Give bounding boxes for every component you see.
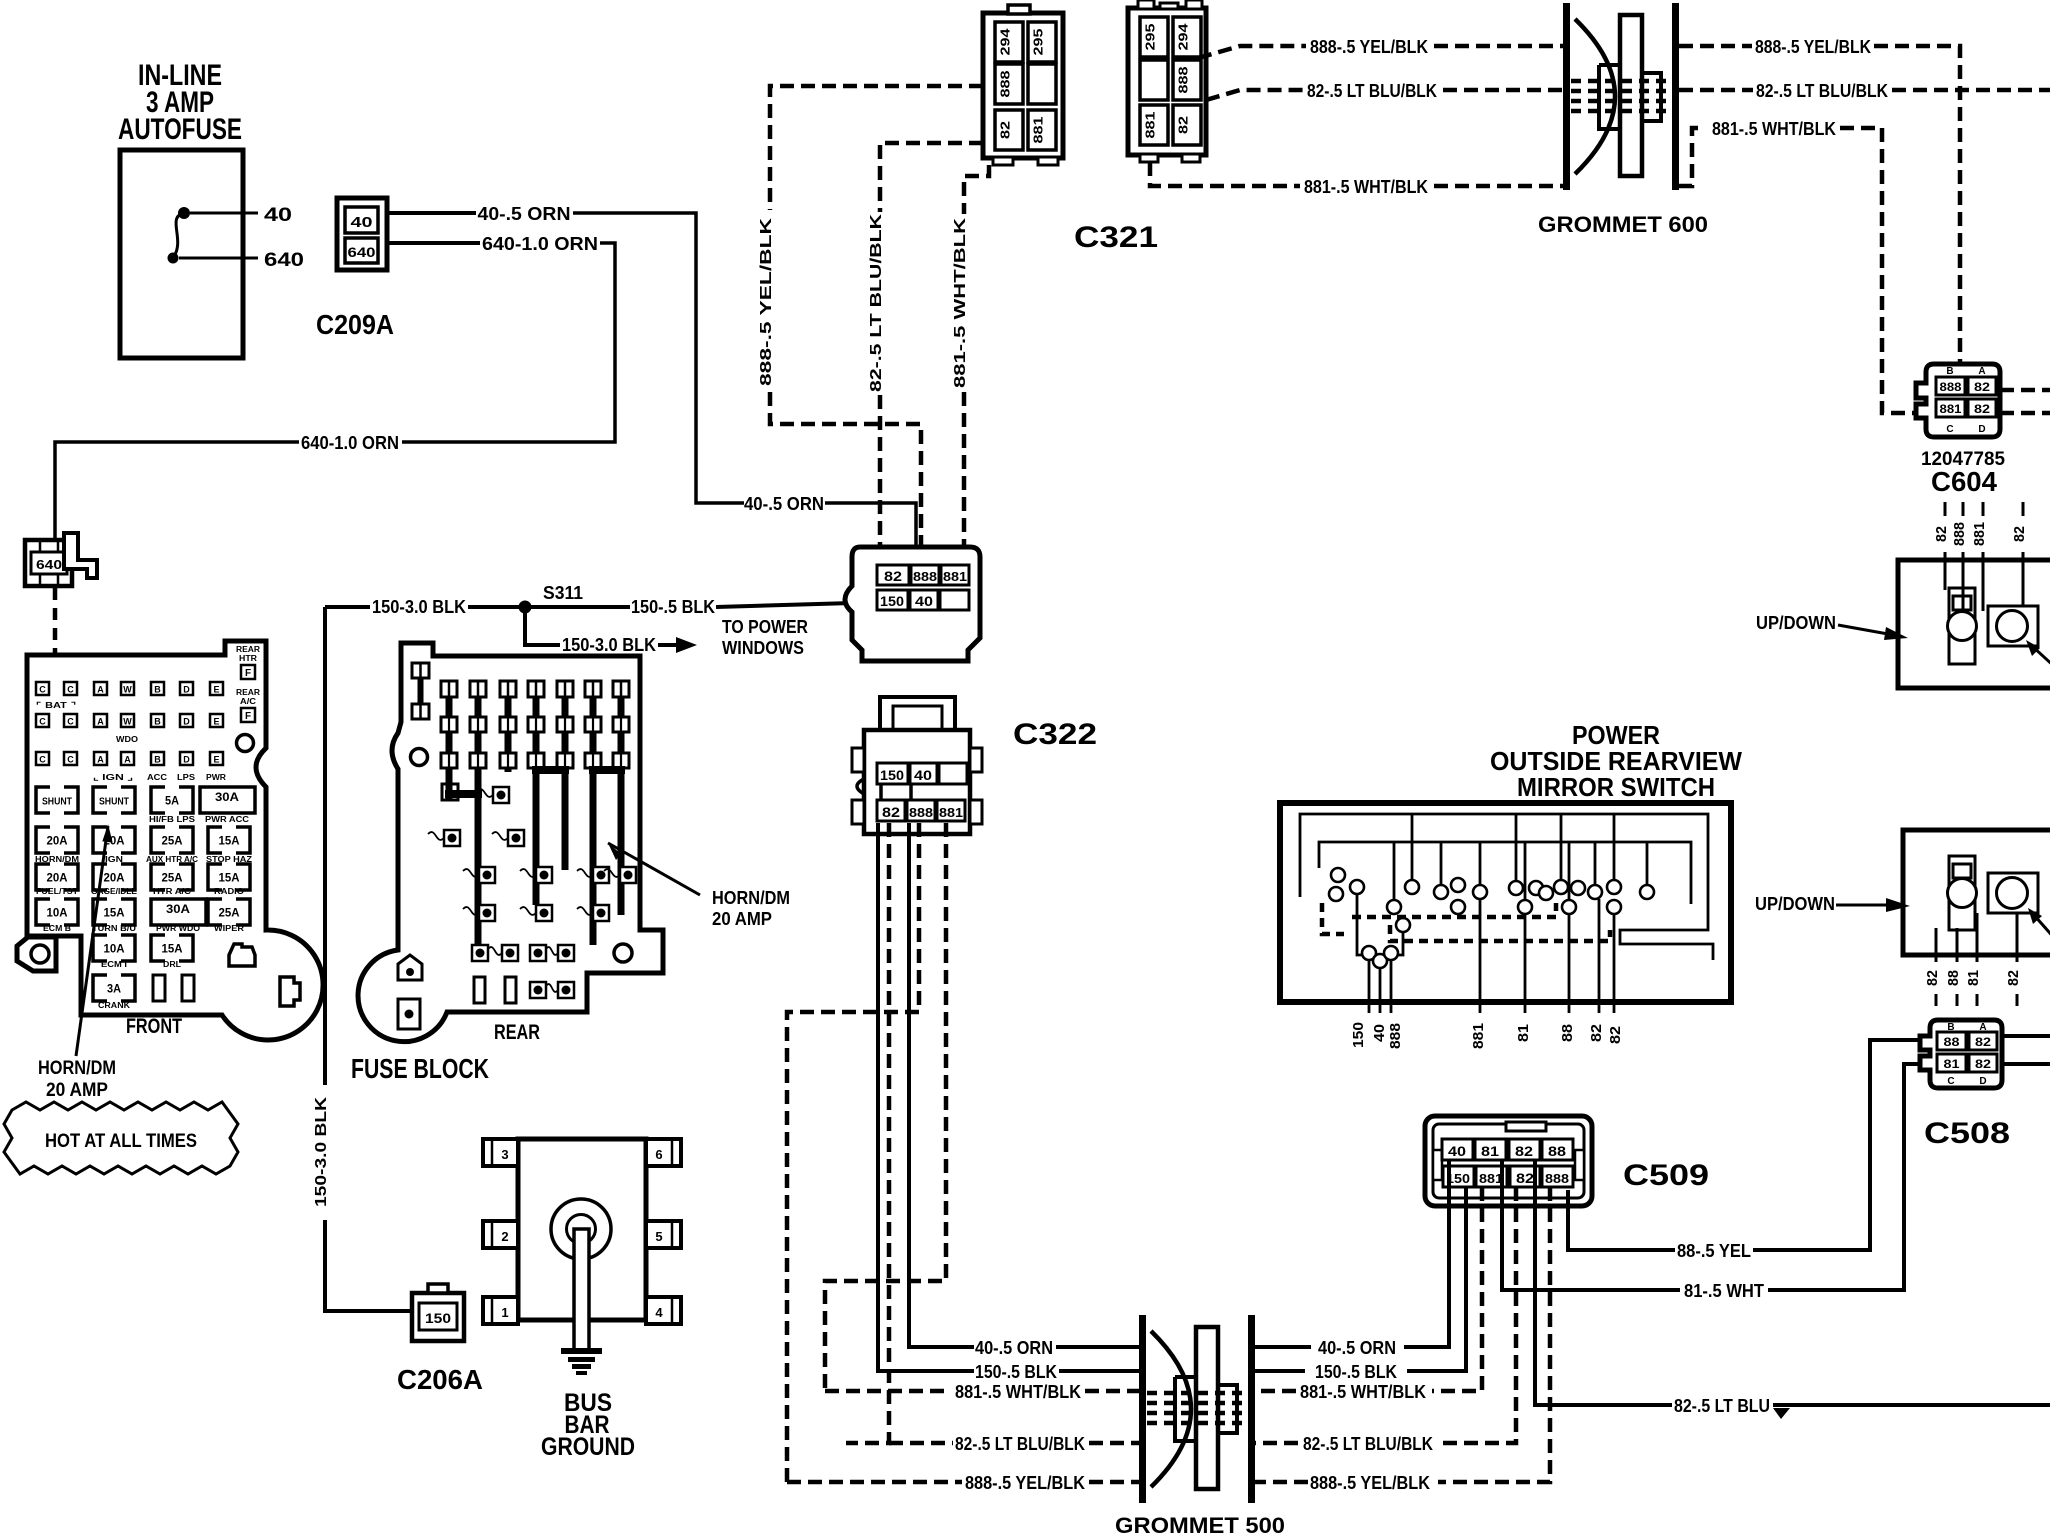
connector C509 cell 82 (bottom) — [1510, 1166, 1540, 1187]
svg-text:40: 40 — [351, 214, 373, 231]
svg-text:881: 881 — [943, 569, 967, 584]
wire 881-.5 WHT/BLK right of grommet 600 — [1679, 128, 1698, 186]
grommet 600 plug body — [1575, 19, 1615, 174]
wire 81-.5 WHT up to C508 pin C — [1768, 1064, 1928, 1290]
terminal F (rear a/c) — [241, 708, 255, 722]
wire 82 stub (upper motor) — [2022, 502, 2025, 516]
REAR block fuse column 3 clip row2 — [500, 753, 516, 768]
svg-text:DRL: DRL — [163, 960, 181, 969]
fuse block REAR outline — [358, 643, 663, 1042]
svg-text:HTR: HTR — [239, 654, 257, 663]
svg-text:C: C — [39, 685, 46, 695]
REAR block pad link D2 — [463, 907, 479, 915]
REAR block pad link B1 — [428, 832, 444, 840]
wire 40-.5 ORN to corner and down — [573, 213, 744, 503]
wire 150-.5 BLK from C509 — [1407, 1187, 1466, 1371]
REAR block fuse column 4 clip row1 — [528, 717, 544, 732]
svg-text:82: 82 — [1515, 1143, 1533, 1159]
connector C509 cell 82 (top) — [1509, 1139, 1540, 1160]
switch pin 888 lead — [1390, 960, 1393, 1013]
wire 40-.5 ORN to grommet 500 — [1255, 1345, 1311, 1349]
wire 82-.5 LT BLU/BLK from C321 right — [1206, 90, 1303, 100]
svg-text:D: D — [183, 755, 190, 765]
REAR block left terminal column — [412, 663, 429, 678]
svg-text:640: 640 — [348, 244, 376, 260]
connector C320 cell 881 — [941, 565, 969, 585]
connector C322 blank cell — [939, 763, 967, 784]
wire 150-.5 BLK to connector C320 — [716, 603, 852, 607]
fuse 10A ECM B — [36, 899, 78, 925]
svg-text:D: D — [183, 685, 190, 695]
wire 640-1.0 ORN segment from C209A — [387, 241, 480, 245]
wire 40-.5 ORN segment from C209A — [387, 211, 476, 215]
svg-text:C604: C604 — [1931, 466, 1997, 497]
REAR block contact pad B3 — [508, 830, 524, 846]
bus bar pin 2 — [483, 1221, 518, 1248]
REAR block fuse column 5 bus bar — [562, 697, 569, 870]
leader arrow to HORN/DM 20 AMP (rear block) — [608, 843, 700, 895]
svg-text:81: 81 — [1515, 1024, 1532, 1042]
svg-text:5A: 5A — [165, 794, 179, 808]
svg-text:SHUNT: SHUNT — [99, 797, 129, 808]
fuse block FRONT left mounting tab — [17, 937, 56, 971]
connector C209A body — [337, 198, 387, 270]
svg-text:C: C — [39, 717, 46, 727]
svg-text:F: F — [245, 711, 251, 722]
connector C321 left cell l1 294 — [995, 22, 1023, 62]
terminal W row2 col4 — [121, 714, 134, 727]
svg-text:888-.5 YEL/BLK: 888-.5 YEL/BLK — [758, 217, 775, 386]
svg-text:HOT AT ALL TIMES: HOT AT ALL TIMES — [45, 1131, 197, 1152]
connector C509 cell 81 — [1475, 1139, 1506, 1160]
REAR block contact pad F4 — [530, 945, 546, 961]
REAR block fuse column 3 bus bar — [505, 697, 512, 772]
wire 640-1.0 ORN corner down to long run — [402, 243, 615, 442]
connector C209A pin 40 cell — [345, 207, 378, 233]
svg-text:295: 295 — [1031, 29, 1046, 56]
fuse SHUNT A1 — [36, 787, 78, 813]
connector C509 side keys — [1433, 1150, 1442, 1180]
svg-text:C508: C508 — [1924, 1117, 2010, 1150]
bus bar pin 5 — [646, 1221, 681, 1248]
svg-text:MIRROR SWITCH: MIRROR SWITCH — [1517, 772, 1715, 802]
svg-text:AUTOFUSE: AUTOFUSE — [118, 113, 242, 146]
connector C322 top plug tab — [880, 697, 955, 730]
svg-text:82-.5 LT BLU: 82-.5 LT BLU — [1674, 1396, 1770, 1416]
upper motor left motor — [1948, 612, 1977, 641]
wire 888-.5 YEL/BLK from C321 right — [1198, 46, 1306, 58]
svg-text:GROMMET 500: GROMMET 500 — [1115, 1513, 1285, 1536]
svg-text:888: 888 — [1387, 1023, 1404, 1049]
svg-text:REAR: REAR — [494, 1021, 540, 1044]
wire 82-.5 LT BLU/BLK to grommet 500 — [1255, 1441, 1298, 1446]
svg-text:15A: 15A — [219, 834, 240, 848]
svg-text:40: 40 — [264, 205, 292, 226]
wire 88 stub (lower motor) — [1956, 955, 1959, 962]
svg-text:FUEL/TST: FUEL/TST — [36, 887, 78, 896]
wire 82 from C604 D to edge — [2000, 411, 2050, 416]
connector C322 cell 888 — [907, 800, 935, 821]
REAR block contact pad F3 — [502, 945, 518, 961]
svg-text:GROMMET 600: GROMMET 600 — [1538, 212, 1708, 237]
terminal B row2 col5 — [151, 714, 164, 727]
svg-text:881: 881 — [1143, 112, 1158, 139]
svg-text:B: B — [154, 685, 161, 695]
bus bar ground body — [518, 1139, 646, 1320]
svg-text:640-1.0 ORN: 640-1.0 ORN — [301, 433, 399, 453]
fuse 20A GAGE/IDLE — [93, 864, 135, 890]
svg-text:REAR: REAR — [236, 688, 260, 697]
svg-text:82: 82 — [1975, 1035, 1991, 1049]
svg-text:15A: 15A — [104, 906, 125, 920]
bus bar pin 1 — [483, 1297, 518, 1324]
wire 881-.5 WHT/BLK vertical down — [962, 392, 967, 566]
svg-text:888-.5 YEL/BLK: 888-.5 YEL/BLK — [1755, 37, 1871, 57]
upper motor left bracket — [1949, 588, 1975, 664]
switch pin 82 lead (a) — [1598, 899, 1601, 1013]
svg-text:20 AMP: 20 AMP — [712, 909, 772, 929]
connector 640 label cell — [31, 552, 67, 574]
REAR block pad link D4 — [520, 907, 536, 915]
wire 881-.5 WHT/BLK to grommet 600 — [1434, 184, 1564, 189]
terminal W row1 col4 — [121, 682, 134, 695]
mirror switch inner bus line 1 — [1300, 814, 1713, 960]
REAR block contact pad D4 — [536, 905, 552, 921]
wire 82-.5 LT BLU/BLK from C322 down — [846, 823, 889, 1443]
wire 40-.5 ORN into connector C320 pin 40 — [825, 503, 916, 592]
svg-text:81: 81 — [1944, 1057, 1960, 1071]
switch contact circles — [1331, 868, 1345, 882]
wire 888-.5 YEL/BLK from C321 left — [770, 86, 983, 210]
wire 40 feed inside C322 — [909, 784, 913, 800]
REAR block contact pad G5 — [558, 982, 574, 998]
svg-text:881: 881 — [1470, 1023, 1487, 1049]
fuse block FRONT outline — [27, 641, 323, 1040]
terminal B row3 col5 — [151, 752, 164, 765]
REAR block fuse column 2 clip row1 — [470, 717, 486, 732]
wire 881 stub (upper motor) — [1982, 502, 1985, 516]
svg-text:C321: C321 — [1074, 221, 1158, 254]
switch wiper dashed linkage — [1322, 903, 1344, 934]
fuse block FRONT upper-right hole — [237, 735, 254, 752]
svg-text:PWR WDO: PWR WDO — [156, 924, 200, 933]
REAR block fuse column 7 clip row1 — [613, 717, 629, 732]
REAR block fuse column 6 bus bar — [590, 697, 597, 945]
REAR block pad link B3 — [492, 832, 508, 840]
svg-text:88: 88 — [1548, 1143, 1566, 1159]
wire 150-.5 BLK from C322 down — [878, 823, 974, 1371]
wire 82 stub (lower motor) — [1935, 955, 1938, 962]
svg-text:15A: 15A — [219, 871, 240, 885]
svg-text:40-.5 ORN: 40-.5 ORN — [478, 204, 571, 224]
REAR block pad link C7 — [604, 869, 620, 877]
svg-text:82-.5 LT BLU/BLK: 82-.5 LT BLU/BLK — [1307, 81, 1437, 101]
wire 82-.5 LT BLU/BLK right of grommet 600 — [1679, 88, 1753, 93]
REAR block pad link G45 — [546, 984, 558, 992]
connector C322 cell 82 — [877, 800, 905, 821]
mirror motor assembly (lower) housing — [1903, 830, 2050, 955]
svg-text:82: 82 — [1176, 116, 1191, 134]
terminal E row3 col7 — [210, 752, 223, 765]
REAR block contact pad G4 — [530, 982, 546, 998]
fuse 25A WIPER — [208, 899, 250, 925]
connector C321 right half index tabs — [1138, 0, 1154, 9]
svg-text:REAR: REAR — [236, 645, 260, 654]
svg-text:ACC: ACC — [147, 773, 167, 782]
REAR block left bottom pad — [398, 999, 420, 1029]
svg-text:82-.5 LT BLU/BLK: 82-.5 LT BLU/BLK — [955, 1434, 1085, 1454]
svg-text:150: 150 — [880, 767, 904, 783]
svg-text:UP/DOWN: UP/DOWN — [1756, 613, 1836, 633]
connector C321 right cell r3 blank — [1140, 60, 1168, 100]
svg-text:D: D — [1978, 424, 1985, 435]
connector C321 left cell l3 888 — [995, 64, 1023, 104]
svg-text:A/C: A/C — [240, 697, 256, 706]
svg-text:881-.5 WHT/BLK: 881-.5 WHT/BLK — [1300, 1382, 1426, 1402]
connector C509 cell 881 — [1476, 1166, 1507, 1187]
svg-text:15A: 15A — [162, 942, 183, 956]
svg-text:40: 40 — [914, 767, 932, 783]
REAR block pad link F45 — [546, 947, 558, 955]
svg-text:81-.5 WHT: 81-.5 WHT — [1684, 1281, 1764, 1301]
lower motor right motor — [1997, 878, 2028, 909]
connector C320 blank cell — [940, 590, 969, 610]
wire 88-.5 YEL from C509 to C508 — [1568, 1190, 1675, 1250]
svg-text:82: 82 — [998, 121, 1013, 139]
connector C320 cell 150 — [877, 590, 908, 610]
bus bar ground strap — [574, 1229, 589, 1350]
connector C604 cell 82 (A) — [1968, 377, 1996, 395]
bottom-right cap slot — [229, 944, 255, 966]
REAR block spare slots bottom — [474, 977, 485, 1003]
svg-text:C: C — [67, 717, 74, 727]
svg-text:⌞ IGN ⌟: ⌞ IGN ⌟ — [93, 773, 133, 782]
svg-text:HTR A/C: HTR A/C — [153, 887, 191, 896]
svg-text:150-.5 BLK: 150-.5 BLK — [631, 597, 715, 617]
svg-text:888-.5 YEL/BLK: 888-.5 YEL/BLK — [965, 1473, 1085, 1493]
svg-text:5: 5 — [655, 1229, 662, 1244]
wire 640-1.0 ORN down to in-line connector — [55, 442, 299, 539]
grommet 500 plug body — [1151, 1331, 1191, 1487]
svg-text:881: 881 — [1479, 1171, 1503, 1186]
fuse 25A HTR A/C — [151, 864, 193, 890]
svg-text:888: 888 — [1940, 380, 1962, 394]
fuse block FRONT tab hole — [31, 945, 49, 963]
wire 888-.5 YEL/BLK to grommet 500 — [1255, 1480, 1308, 1485]
svg-text:FUSE BLOCK: FUSE BLOCK — [351, 1053, 489, 1084]
svg-text:20 AMP: 20 AMP — [46, 1080, 108, 1101]
svg-text:10A: 10A — [47, 906, 68, 920]
spare terminal slots — [153, 975, 165, 1001]
connector C206A pin 150 cell — [419, 1303, 457, 1330]
leader arrow UP/DOWN upper — [1838, 625, 1888, 634]
wire 82 inside lower box right — [2016, 913, 2019, 955]
terminal D row2 col6 — [180, 714, 193, 727]
fuse 5A HI/FB LPS — [151, 787, 193, 813]
wire 82-.5 LT BLU/BLK from C321 left — [880, 143, 983, 212]
svg-text:C509: C509 — [1623, 1159, 1709, 1192]
connector C508 cell 81 — [1937, 1054, 1966, 1072]
wire 888-.5 YEL/BLK from C509 — [1438, 1187, 1550, 1482]
svg-text:C322: C322 — [1013, 718, 1097, 751]
connector C321 right cell r6 82 — [1173, 105, 1201, 145]
connector C322 cell 150 — [877, 763, 908, 784]
connector C321 left cell l6 881 — [1028, 110, 1056, 150]
terminal B row1 col5 — [151, 682, 164, 695]
svg-text:PWR ACC: PWR ACC — [205, 815, 249, 824]
svg-text:82: 82 — [882, 804, 900, 820]
svg-text:A: A — [1978, 366, 1985, 377]
wire 888 stub (upper motor) — [1962, 502, 1965, 516]
svg-text:881-.5 WHT/BLK: 881-.5 WHT/BLK — [952, 217, 969, 388]
connector C321 left half index tabs — [1008, 5, 1030, 14]
svg-text:150-3.0 BLK: 150-3.0 BLK — [313, 1096, 330, 1207]
svg-text:C: C — [67, 685, 74, 695]
wire 881 inside upper box — [1982, 560, 1985, 611]
bus bar center post inner circle — [567, 1215, 596, 1244]
svg-text:150: 150 — [425, 1310, 451, 1326]
svg-text:82-.5 LT BLU/BLK: 82-.5 LT BLU/BLK — [868, 213, 885, 392]
svg-text:150-3.0 BLK: 150-3.0 BLK — [372, 597, 466, 617]
REAR block fuse column 7 clip row2 — [613, 753, 629, 768]
connector C321 right cell r4 888 — [1173, 60, 1201, 100]
connector C322 body — [864, 730, 970, 834]
terminal C row3 col1 — [36, 752, 49, 765]
terminal C row1 col1 — [36, 682, 49, 695]
leader arrow to HORN/DM fuse — [76, 826, 108, 1056]
svg-text:HI/FB LPS: HI/FB LPS — [149, 815, 196, 824]
svg-text:D: D — [1979, 1076, 1986, 1087]
REAR block fuse column 6 cap — [585, 681, 601, 697]
mirror switch inner bus line 2 — [1319, 842, 1691, 904]
REAR block pad link F23 — [488, 947, 502, 955]
svg-text:3A: 3A — [107, 982, 121, 996]
connector C509 cell 88 — [1542, 1139, 1573, 1160]
svg-text:88-.5 YEL: 88-.5 YEL — [1677, 1241, 1751, 1261]
wire 150-3.0 BLK branch from S311 down — [525, 611, 560, 645]
fuse 30A PWR WDO — [151, 899, 206, 925]
svg-text:40: 40 — [915, 593, 933, 609]
fuse 15A TURN B/U — [93, 899, 135, 925]
svg-text:82: 82 — [1924, 970, 1941, 986]
svg-text:40-.5 ORN: 40-.5 ORN — [975, 1338, 1053, 1358]
upper motor right motor — [1997, 611, 2028, 642]
svg-text:C209A: C209A — [316, 309, 394, 340]
wire 888 inside upper box — [1962, 560, 1965, 611]
terminal A row3 col3 — [94, 752, 107, 765]
bus bar pin 4 — [646, 1297, 681, 1324]
connector C604 cell 881 — [1936, 399, 1965, 417]
svg-text:ECM B: ECM B — [43, 924, 71, 933]
REAR block fuse column 2 clip row2 — [470, 753, 486, 768]
wire 82-.5 LT BLU/BLK vertical down — [878, 395, 883, 566]
svg-text:640: 640 — [264, 250, 304, 271]
connector C322 side flanges — [852, 748, 864, 772]
svg-text:150-.5 BLK: 150-.5 BLK — [975, 1362, 1057, 1382]
REAR block pad link C4 — [520, 869, 536, 877]
REAR block pad link C2 — [463, 869, 479, 877]
bus bar center post outer circle — [551, 1199, 611, 1259]
splice S311 — [519, 601, 532, 614]
svg-text:ECM I: ECM I — [101, 960, 127, 969]
svg-text:82: 82 — [2011, 526, 2028, 542]
REAR block jumper col4-col5 — [532, 766, 569, 774]
connector C321 left half body — [983, 13, 1063, 158]
svg-text:GROUND: GROUND — [541, 1433, 635, 1461]
svg-text:25A: 25A — [219, 906, 240, 920]
svg-text:640-1.0 ORN: 640-1.0 ORN — [482, 234, 598, 254]
REAR block fuse column 4 bus bar — [533, 697, 540, 905]
connector C321 right half body — [1128, 8, 1206, 155]
connector C509 cell 888 — [1542, 1166, 1573, 1187]
wire 81 inside lower box — [1976, 913, 1979, 955]
wire 82 inside upper box right — [2022, 560, 2025, 606]
bus bar pin 6 — [646, 1139, 681, 1166]
REAR block pad link C6 — [577, 869, 593, 877]
svg-text:20A: 20A — [104, 871, 125, 885]
wire 40-.5 ORN to grommet 500 — [1056, 1345, 1140, 1349]
svg-text:888-.5 YEL/BLK: 888-.5 YEL/BLK — [1310, 1473, 1430, 1493]
svg-text:1: 1 — [501, 1305, 508, 1320]
terminal C row1 col2 — [64, 682, 77, 695]
svg-text:2: 2 — [501, 1229, 508, 1244]
wire 82 stub (upper motor) — [1944, 502, 1947, 516]
svg-text:881: 881 — [939, 805, 963, 820]
svg-text:881-.5 WHT/BLK: 881-.5 WHT/BLK — [1712, 119, 1836, 139]
REAR block fuse column 1 clip row2 — [441, 753, 457, 768]
svg-text:A: A — [97, 755, 104, 765]
svg-text:20A: 20A — [47, 871, 68, 885]
connector C508 cell 82 (A) — [1969, 1032, 1997, 1050]
REAR block contact pad C2 — [479, 867, 495, 883]
connector C206A top tab — [428, 1284, 448, 1293]
svg-text:150-3.0 BLK: 150-3.0 BLK — [562, 635, 656, 655]
fuse 25A AUX HTR A/C — [151, 827, 193, 853]
REAR block jumper col1-col2 — [445, 790, 482, 798]
connector C321 left cell l2 295 — [1028, 22, 1056, 62]
terminal A row3 col4 — [121, 752, 134, 765]
mirror motor assembly (upper) housing — [1898, 560, 2050, 688]
svg-text:881: 881 — [1940, 402, 1962, 416]
svg-text:82: 82 — [1975, 1057, 1991, 1071]
switch pin 150 lead — [1368, 960, 1371, 1013]
connector C206A body — [412, 1293, 464, 1341]
lower motor left bracket — [1949, 856, 1975, 930]
fuse 20A FUEL/TST — [36, 864, 78, 890]
wire 888-.5 YEL/BLK from C322 down — [787, 823, 919, 1482]
REAR block contact pad C4 — [536, 867, 552, 883]
switch stem wires — [1411, 814, 1414, 880]
svg-text:888-.5 YEL/BLK: 888-.5 YEL/BLK — [1310, 37, 1428, 57]
svg-text:88: 88 — [1944, 1035, 1960, 1049]
svg-text:B: B — [154, 717, 161, 727]
mirror switch housing — [1280, 803, 1731, 1002]
svg-text:C: C — [1947, 1076, 1954, 1087]
svg-text:40: 40 — [1371, 1024, 1388, 1042]
wire 40-.5 ORN from C509 — [1404, 1160, 1449, 1347]
svg-text:30A: 30A — [215, 790, 239, 804]
svg-text:A: A — [97, 717, 104, 727]
connector C508 body — [1920, 1020, 2002, 1088]
REAR block contact pad D6 — [593, 905, 609, 921]
REAR block pad link D6 — [577, 907, 593, 915]
REAR block fuse column 3 clip row1 — [500, 717, 516, 732]
svg-text:S311: S311 — [543, 583, 583, 603]
grommet 600 right panel bar — [1672, 3, 1679, 190]
leader arrow UP/DOWN lower — [1836, 904, 1890, 907]
svg-text:WIPER: WIPER — [214, 924, 244, 933]
wire 881-.5 WHT/BLK from C322 down — [825, 823, 946, 1391]
